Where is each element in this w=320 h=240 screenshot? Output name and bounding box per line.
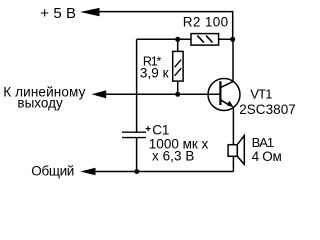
C1 polarity plus	[146, 126, 151, 131]
svg-text:3,9 к: 3,9 к	[140, 66, 169, 81]
wire C1 bottom lead	[136, 138, 138, 172]
transistor VT1	[208, 79, 240, 111]
svg-text:Общий: Общий	[31, 163, 74, 178]
node dot R2 right / +5V	[230, 37, 235, 42]
capacitor C1 plates	[122, 132, 146, 137]
wire emitter lead	[232, 107, 234, 145]
resistor R2	[191, 34, 219, 46]
svg-text:+ 5 В: + 5 В	[40, 5, 76, 22]
svg-text:VT1: VT1	[250, 87, 272, 102]
svg-text:выходу: выходу	[17, 96, 63, 111]
wire base	[99, 93, 220, 95]
arrow +5V	[80, 8, 100, 16]
resistor R1	[173, 39, 183, 94]
svg-text:C1: C1	[152, 122, 169, 137]
node dot R1 top	[175, 37, 180, 42]
arrow to line output	[92, 90, 107, 98]
svg-text:2SC3807: 2SC3807	[239, 102, 296, 117]
svg-text:х 6,3 В: х 6,3 В	[152, 149, 194, 164]
node dot R1 bottom (base node)	[175, 92, 180, 97]
speaker BA1	[228, 136, 244, 172]
node dot C1 bottom	[134, 169, 139, 174]
arrow ground	[80, 168, 95, 176]
wire left vertical (bias node to C1)	[136, 39, 138, 132]
wire collector lead	[232, 39, 234, 81]
svg-text:R2 100: R2 100	[183, 14, 229, 29]
wire bias rail	[137, 38, 233, 40]
wire +5V rail top	[99, 12, 233, 40]
svg-text:4 Ом: 4 Ом	[252, 149, 282, 164]
wire ground rail	[95, 171, 233, 173]
